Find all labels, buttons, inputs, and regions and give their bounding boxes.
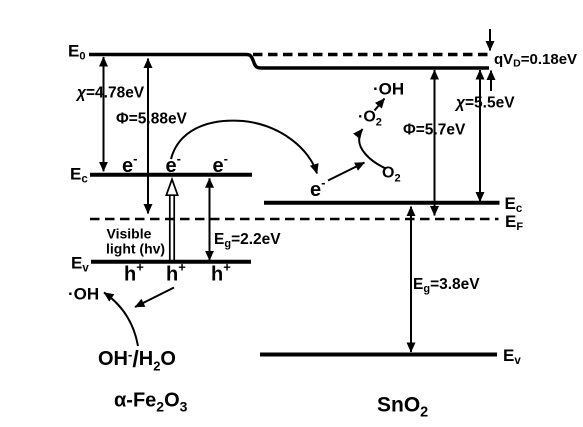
arrow hollow excitation arrow from Ev to Ec (166, 179, 177, 261)
wire conduction band line Ec of SnO2 (264, 201, 500, 205)
wire valence band line Ev of SnO2 (260, 353, 497, 357)
svg-text:Eg=3.8eV: Eg=3.8eV (413, 276, 480, 295)
svg-text:χ=5.5eV: χ=5.5eV (454, 95, 515, 112)
wire valence band line Ev of Fe2O3 (91, 260, 251, 264)
arrow curved from OH-/H2O to .OH (104, 293, 138, 347)
svg-text:Φ=5.88eV: Φ=5.88eV (116, 111, 188, 128)
svg-text:OH-/H2O: OH-/H2O (98, 346, 176, 374)
arrow Phi of SnO2 work function (double-headed) (434, 70, 436, 216)
svg-text:Visible: Visible (107, 226, 152, 242)
arrow Eg of SnO2 band gap (double-headed) (410, 207, 412, 353)
arrow qVD upper (down arrow to dashed line) (489, 29, 491, 51)
svg-text:light (hv): light (hv) (106, 241, 165, 257)
svg-text:·OH: ·OH (68, 285, 99, 304)
svg-text:qVD=0.18eV: qVD=0.18eV (494, 51, 577, 70)
arrow Eg of Fe2O3 band gap (double-headed) (209, 178, 211, 260)
svg-text:·OH: ·OH (373, 80, 404, 99)
arrow curved from O2 to .O2 radical (359, 129, 386, 169)
svg-text:α-Fe2O3: α-Fe2O3 (114, 390, 188, 415)
arrow from .O2 to .OH (375, 99, 385, 111)
svg-text:Eg=2.2eV: Eg=2.2eV (214, 231, 281, 250)
wire Fermi level dashed line EF (90, 218, 499, 221)
svg-text:χ=4.78eV: χ=4.78eV (75, 85, 145, 102)
wire conduction band line Ec of Fe2O3 (90, 173, 252, 177)
wire vacuum level line E0 of Fe2O3 with step down to SnO2 vacuum level (89, 55, 489, 69)
arrow curved electron transfer from Fe2O3 Ec to SnO2 (171, 121, 317, 174)
arrow from hole h+ to OH-/H2O (135, 288, 174, 308)
arrow chi of SnO2 electron affinity (double-headed) (479, 70, 481, 202)
arrow qVD lower (up arrow to solid line) (490, 71, 492, 92)
wire dashed vacuum level reference line (253, 53, 490, 56)
arrow chi of Fe2O3 (electron affinity, double-headed) (103, 57, 105, 171)
arrow from e- to O2 reduction curve (328, 163, 365, 181)
arrow Phi of Fe2O3 (work function, double-headed) (147, 59, 149, 214)
